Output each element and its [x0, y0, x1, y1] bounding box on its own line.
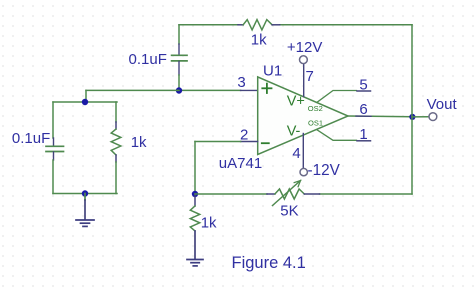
- pin 7 supply lead: [303, 64, 305, 97]
- terminal -12V bubble: [300, 168, 307, 175]
- svg-text:1k: 1k: [201, 215, 217, 232]
- svg-text:3: 3: [237, 74, 245, 91]
- pin 6 lead accent: [356, 115, 371, 117]
- svg-text:-12V: -12V: [308, 162, 341, 179]
- svg-text:4: 4: [292, 145, 300, 162]
- wire node A to left elbow: [86, 90, 179, 102]
- svg-text:0.1uF: 0.1uF: [12, 130, 50, 147]
- wire shunt resistor branch upper: [115, 102, 117, 122]
- wire pin 6 output to node E: [348, 115, 412, 118]
- svg-text:Vout: Vout: [427, 96, 458, 113]
- svg-text:1k: 1k: [251, 31, 267, 48]
- wire top feedback rail: [179, 24, 412, 26]
- node B junction: [82, 99, 88, 105]
- capacitor C series 0.1uF (top): [172, 44, 187, 75]
- terminal +12V bubble: [300, 56, 308, 64]
- wire capacitor to node A: [178, 75, 180, 90]
- svg-text:1k: 1k: [131, 134, 147, 151]
- wire shunt resistor branch lower: [115, 162, 117, 194]
- resistor R shunt 1k (left): [111, 122, 121, 162]
- svg-text:+12V: +12V: [287, 39, 322, 56]
- wire pot row right segment: [320, 193, 413, 195]
- pin 5 offset-null lead: [317, 91, 371, 103]
- svg-text:5K: 5K: [280, 202, 298, 219]
- op-amp inverting - mark: [262, 142, 269, 144]
- resistor R feedback 1k (top): [238, 20, 280, 30]
- pin 2 lead: [241, 141, 258, 143]
- wire node E to Vout terminal: [412, 116, 429, 118]
- wire right feedback vertical (node E up to top rail): [411, 25, 413, 117]
- op-amp U1 triangle: [258, 77, 348, 155]
- wire right feedback vertical (node E down to pot row): [411, 117, 413, 194]
- node C junction: [82, 190, 88, 196]
- ground (left): [76, 194, 94, 227]
- svg-text:V+: V+: [287, 94, 305, 110]
- pin 4 supply lead: [302, 134, 304, 168]
- wire parallel RC top rail: [53, 101, 117, 103]
- ground (bottom, under 1k): [187, 231, 203, 266]
- wire parallel RC bottom rail: [53, 193, 117, 195]
- wire left cap branch lower: [52, 160, 54, 194]
- node A junction: [176, 87, 182, 93]
- pin 3 lead: [241, 89, 258, 91]
- svg-text:uA741: uA741: [219, 155, 262, 172]
- potentiometer R 5K: [267, 181, 320, 206]
- svg-text:OS2: OS2: [308, 104, 323, 113]
- capacitor C shunt 0.1uF (left): [46, 138, 64, 160]
- node E output junction: [409, 114, 415, 120]
- svg-text:U1: U1: [263, 63, 282, 80]
- wire left vertical into series capacitor: [178, 25, 180, 44]
- wire pot row left segment (node D to pot): [195, 193, 267, 195]
- svg-text:0.1uF: 0.1uF: [129, 51, 167, 68]
- svg-text:7: 7: [306, 68, 314, 85]
- svg-text:OS1: OS1: [308, 119, 323, 128]
- svg-text:Figure 4.1: Figure 4.1: [232, 254, 306, 272]
- svg-text:V-: V-: [287, 123, 301, 139]
- pin 1 offset-null lead: [317, 130, 371, 141]
- node D junction: [192, 191, 198, 197]
- terminal Vout bubble: [429, 113, 437, 121]
- wire pin 2 to node D: [195, 142, 241, 195]
- wire node A row to op-amp pin 3: [179, 89, 241, 91]
- op-amp noninverting + mark: [262, 84, 271, 93]
- wire left cap branch upper: [52, 102, 54, 138]
- resistor R ground-leg 1k (bottom): [190, 194, 199, 231]
